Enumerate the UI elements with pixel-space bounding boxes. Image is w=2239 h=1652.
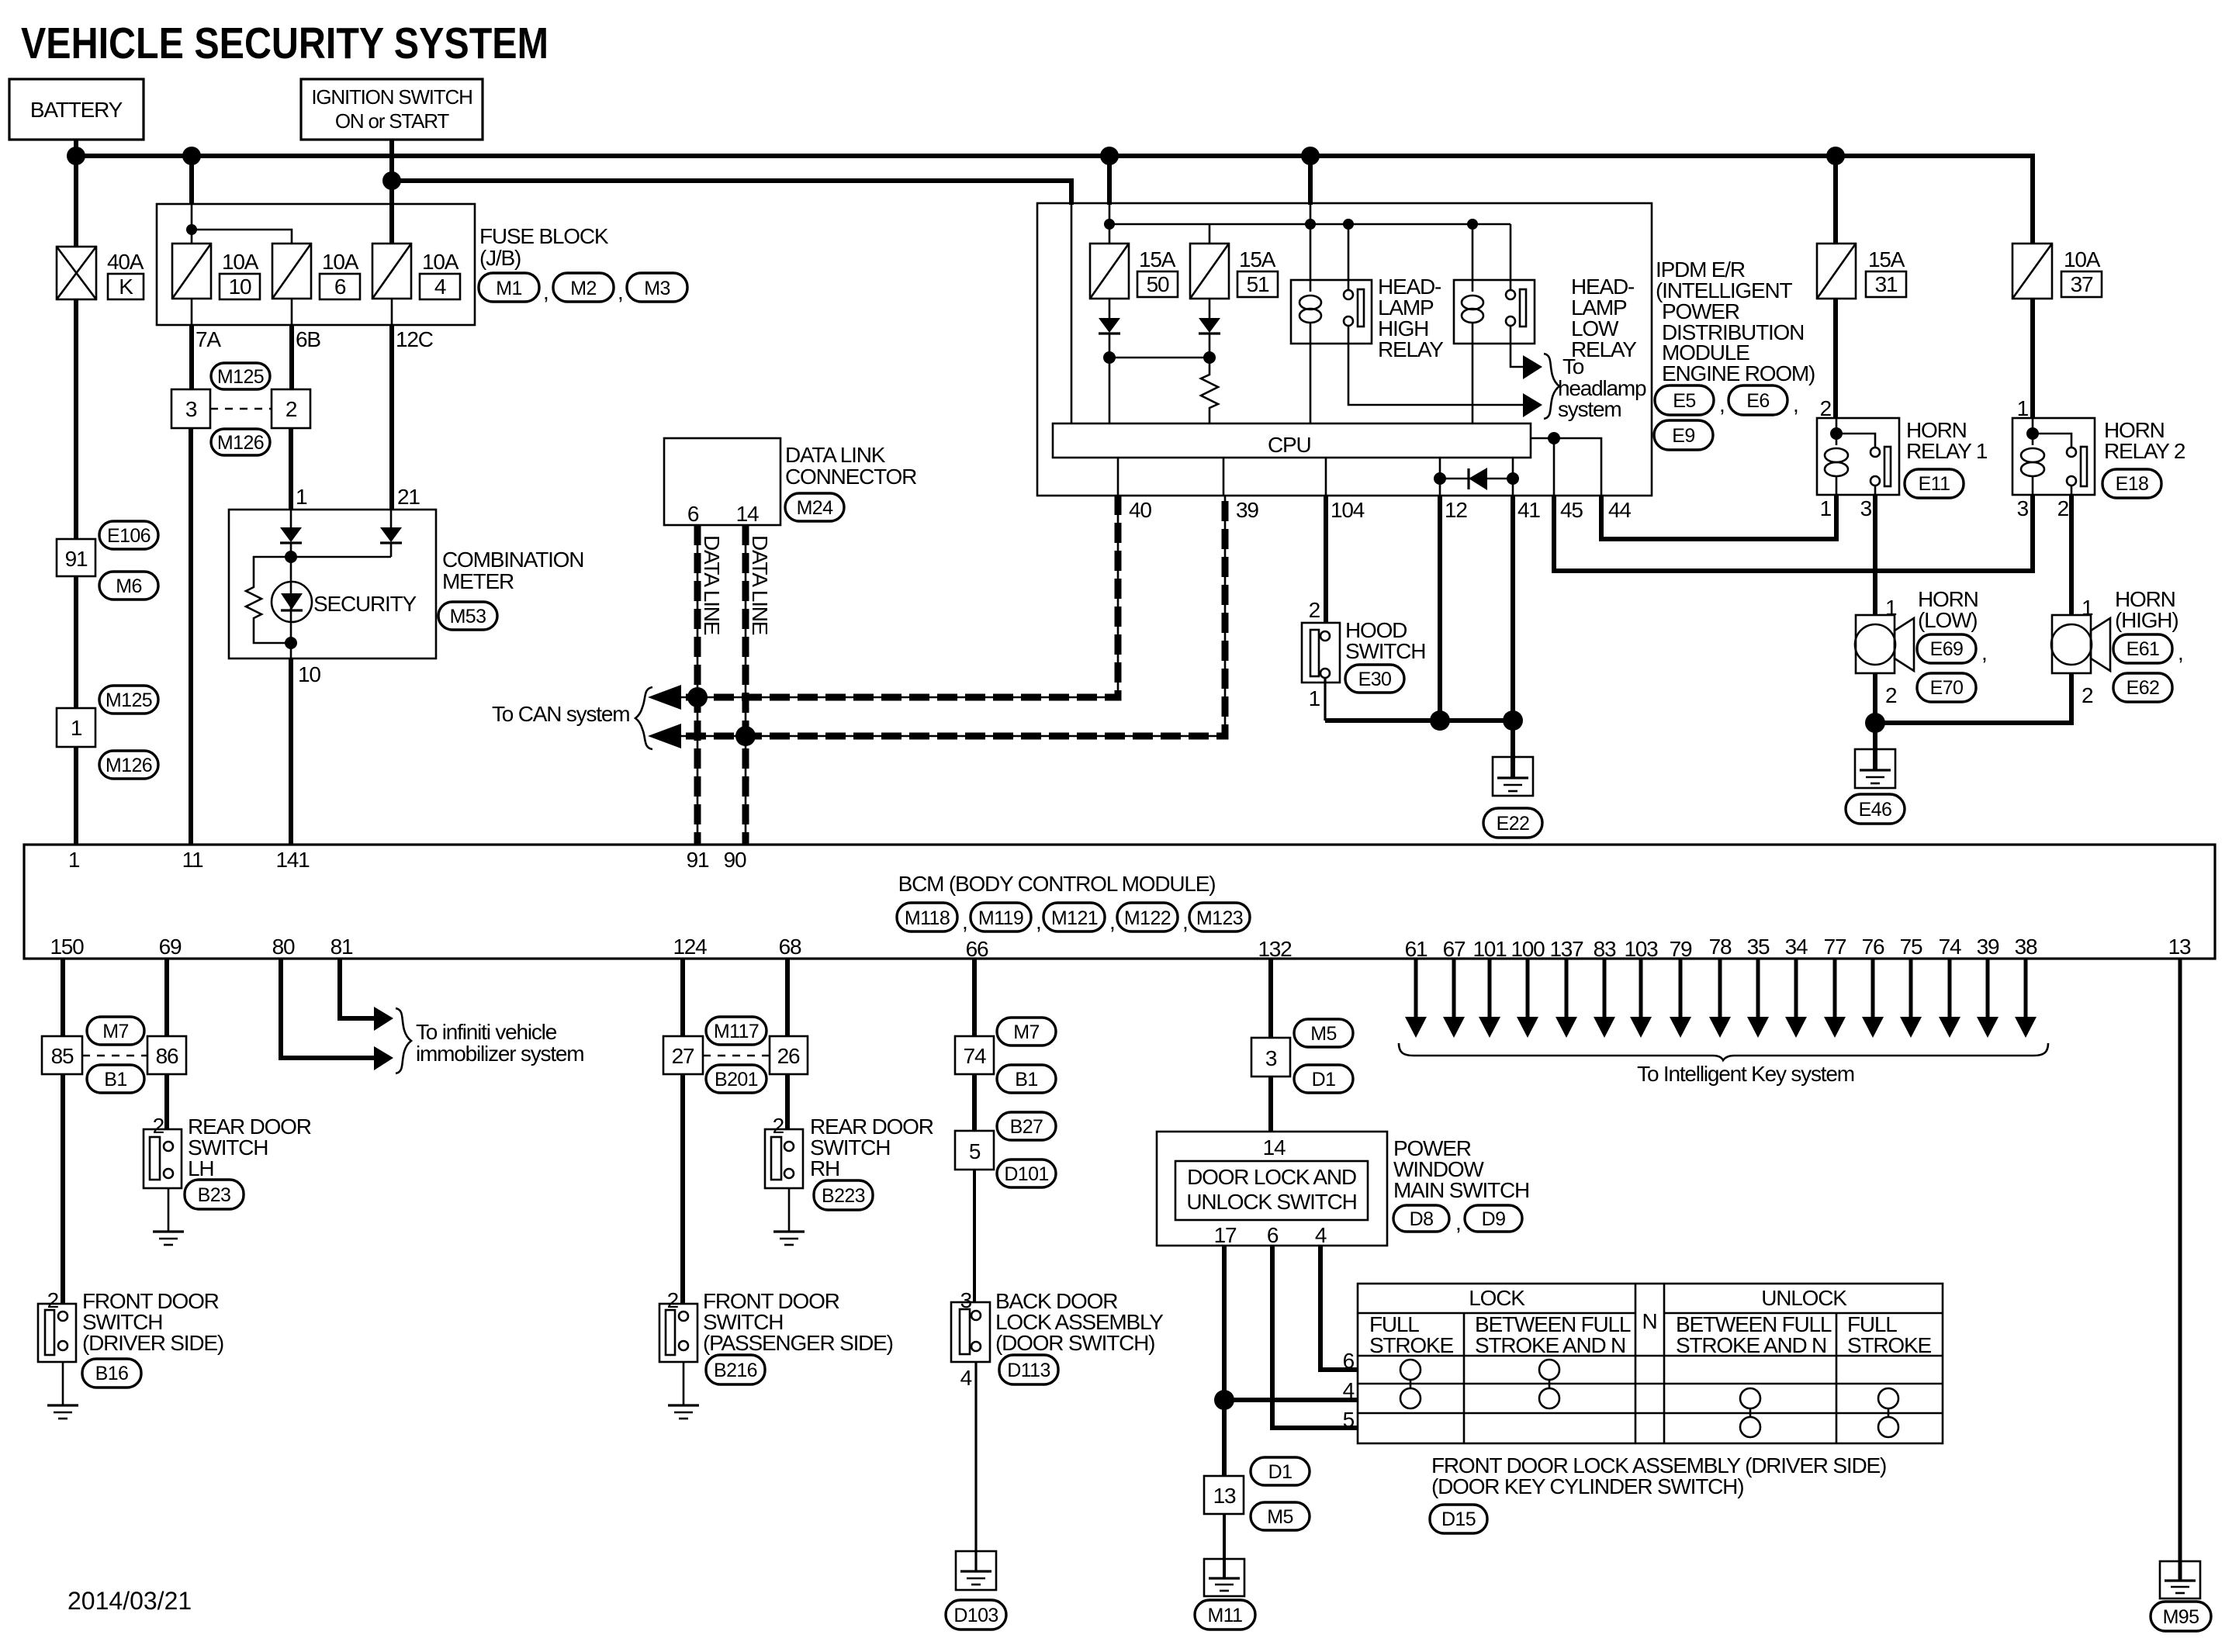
- fuse 15A 51: [1190, 244, 1229, 299]
- svg-text:system: system: [1558, 397, 1621, 421]
- relay headlamp high: [1291, 280, 1372, 344]
- svg-text:,: ,: [2178, 641, 2183, 665]
- svg-text:DATA LINK: DATA LINK: [785, 443, 886, 467]
- fuse 10A 6: [272, 244, 311, 299]
- node CAN lower: [735, 726, 756, 746]
- svg-text:M125: M125: [106, 689, 152, 711]
- ground E22: [1493, 757, 1533, 796]
- wire 6B output: [291, 299, 293, 325]
- svg-text:40: 40: [1129, 498, 1151, 522]
- ground rear door switch LH: [168, 1188, 170, 1232]
- diode below fuse 51: [1209, 299, 1211, 318]
- svg-text:COMBINATION: COMBINATION: [442, 548, 583, 572]
- svg-text:To Intelligent Key system: To Intelligent Key system: [1637, 1062, 1854, 1086]
- wire ignition stub: [389, 140, 394, 183]
- svg-text:M126: M126: [217, 432, 264, 454]
- svg-text:M2: M2: [570, 278, 597, 299]
- wire rail to headlamp low contact: [1510, 224, 1512, 290]
- svg-text:B27: B27: [1010, 1116, 1043, 1138]
- wire fuse50 feed: [1107, 156, 1112, 205]
- svg-text:UNLOCK: UNLOCK: [1761, 1286, 1847, 1310]
- wire CPU pin 104 stub: [1325, 458, 1327, 496]
- svg-text:,: ,: [1455, 1211, 1461, 1235]
- svg-text:14: 14: [1263, 1135, 1286, 1160]
- svg-text:34: 34: [1785, 935, 1808, 959]
- wire BCM pin 68: [785, 959, 790, 1036]
- wire ignition bus: [392, 181, 1071, 205]
- svg-text:D9: D9: [1482, 1208, 1506, 1230]
- wire CPU right to pins 45 44: [1531, 438, 1601, 496]
- svg-text:74: 74: [1939, 935, 1961, 959]
- svg-text:M121: M121: [1051, 907, 1098, 929]
- BCM body control module box: [24, 845, 2215, 959]
- svg-text:STROKE AND N: STROKE AND N: [1676, 1333, 1826, 1357]
- fuse 10A 4: [372, 244, 411, 299]
- svg-text:81: 81: [330, 935, 353, 959]
- svg-text:100: 100: [1511, 937, 1545, 961]
- wire 6B to meter pin 1: [289, 428, 293, 510]
- svg-text:6: 6: [334, 275, 346, 299]
- svg-text:(LOW): (LOW): [1918, 608, 1977, 632]
- wire connector 13 to M11: [1223, 1514, 1226, 1559]
- svg-text:103: 103: [1624, 937, 1658, 961]
- svg-text:37: 37: [2071, 272, 2093, 296]
- svg-text:91: 91: [687, 848, 709, 872]
- svg-text:3: 3: [185, 397, 197, 421]
- diode below fuse 50: [1109, 299, 1111, 318]
- wire BCM pin 80 to immobilizer: [281, 959, 374, 1058]
- svg-text:D15: D15: [1441, 1509, 1476, 1530]
- svg-text:150: 150: [50, 935, 84, 959]
- wire pin 68 to rear door switch RH: [785, 1074, 790, 1129]
- svg-text:MAIN SWITCH: MAIN SWITCH: [1393, 1178, 1529, 1202]
- svg-text:M5: M5: [1267, 1506, 1293, 1528]
- svg-text:M95: M95: [2163, 1606, 2199, 1628]
- svg-text:M118: M118: [905, 907, 950, 929]
- svg-text:M126: M126: [106, 755, 152, 776]
- svg-text:26: 26: [777, 1044, 800, 1068]
- node pin 17 to key cylinder row 4: [1214, 1390, 1234, 1410]
- wire 7A output: [191, 299, 193, 325]
- svg-text:(DOOR SWITCH): (DOOR SWITCH): [995, 1331, 1154, 1355]
- fuse block J/B box: [157, 204, 475, 325]
- wire battery to fuse 40A: [74, 156, 78, 247]
- svg-text:2: 2: [667, 1288, 679, 1312]
- IPDM E/R box: [1037, 203, 1652, 496]
- arrows to intelligent key system: [1405, 959, 2037, 1038]
- svg-text:immobilizer system: immobilizer system: [416, 1042, 583, 1066]
- wire ignition to fuse 4: [389, 181, 394, 244]
- wire 7A to BCM pin 11: [189, 428, 193, 845]
- svg-text:METER: METER: [442, 569, 514, 593]
- svg-text:12C: 12C: [396, 327, 434, 351]
- svg-text:(DRIVER SIDE): (DRIVER SIDE): [82, 1331, 223, 1355]
- wire headlamp high coil to CPU: [1310, 344, 1312, 423]
- wire BCM pin 66: [972, 959, 977, 1036]
- wire pin 124 to front door switch passenger: [680, 1074, 685, 1304]
- power window main switch D8/D9: [1157, 1132, 1387, 1246]
- svg-text:,: ,: [1109, 910, 1115, 934]
- svg-text:10A: 10A: [2064, 247, 2101, 271]
- connector M5/D1 pin 3: [1251, 1038, 1290, 1077]
- svg-text:31: 31: [1875, 272, 1898, 296]
- svg-text:D1: D1: [1312, 1069, 1336, 1090]
- svg-text:6B: 6B: [296, 327, 320, 351]
- svg-text:,: ,: [1719, 392, 1725, 416]
- node battery bus at battery: [67, 147, 85, 165]
- svg-text:SECURITY: SECURITY: [313, 592, 417, 616]
- svg-text:M6: M6: [116, 575, 142, 597]
- wire pin 45 to horn relay 2 pin 3: [1554, 495, 2033, 571]
- node rail headlamp low coil: [1467, 219, 1478, 230]
- wire battery bus: [76, 156, 2033, 244]
- svg-text:,: ,: [962, 910, 967, 934]
- brace intelligent key: [1399, 1043, 2048, 1060]
- diode between pins 12 and 41: [1440, 478, 1513, 480]
- svg-text:M5: M5: [1310, 1023, 1337, 1045]
- svg-text:86: 86: [156, 1044, 178, 1068]
- svg-text:STROKE AND N: STROKE AND N: [1475, 1333, 1625, 1357]
- ground front door switch driver: [62, 1362, 64, 1405]
- svg-text:D103: D103: [953, 1605, 998, 1626]
- svg-text:13: 13: [1213, 1484, 1236, 1508]
- svg-text:M119: M119: [978, 907, 1023, 929]
- node battery bus headlamp relay feed: [1301, 147, 1320, 165]
- fuse 40A K: [57, 247, 96, 299]
- svg-text:61: 61: [1405, 937, 1427, 961]
- node diode 51: [1203, 351, 1216, 364]
- table front door lock assembly key cylinder switch: [1358, 1284, 1943, 1443]
- svg-text:10A: 10A: [322, 250, 359, 274]
- svg-text:35: 35: [1747, 935, 1770, 959]
- svg-text:2014/03/21: 2014/03/21: [67, 1587, 192, 1615]
- svg-text:To: To: [1562, 354, 1584, 378]
- svg-text:E22: E22: [1497, 813, 1530, 835]
- svg-text:VEHICLE SECURITY SYSTEM: VEHICLE SECURITY SYSTEM: [21, 19, 549, 68]
- CPU: [1053, 423, 1531, 458]
- connector M7/B1 pin 74: [955, 1036, 994, 1074]
- svg-text:D113: D113: [1007, 1360, 1050, 1381]
- svg-text:RELAY: RELAY: [1378, 337, 1444, 361]
- node rail headlamp high coil: [1305, 219, 1316, 230]
- connector M125/M126 pin 1: [57, 708, 95, 747]
- svg-text:77: 77: [1824, 935, 1846, 959]
- svg-text:137: 137: [1549, 937, 1583, 961]
- ignition switch: [301, 79, 483, 140]
- svg-text:N: N: [1642, 1309, 1656, 1333]
- svg-text:78: 78: [1709, 935, 1732, 959]
- wire ignition feed into IPDM to CPU: [1071, 203, 1073, 423]
- wire connector 3 to power window main switch: [1268, 1077, 1273, 1132]
- svg-text:2: 2: [2057, 496, 2069, 520]
- svg-text:E30: E30: [1358, 669, 1392, 690]
- svg-text:74: 74: [964, 1044, 986, 1068]
- wire horn high pin 2 join: [1875, 673, 2071, 723]
- svg-text:B1: B1: [104, 1069, 126, 1090]
- wire connector 91 to connector 1: [74, 576, 78, 708]
- svg-text:To CAN system: To CAN system: [492, 702, 629, 726]
- node rail fuse50: [1104, 219, 1115, 230]
- svg-text:3: 3: [2017, 496, 2029, 520]
- svg-text:39: 39: [1977, 935, 1999, 959]
- wire battery stub: [74, 140, 78, 158]
- svg-text:,: ,: [1182, 910, 1188, 934]
- svg-text:69: 69: [159, 935, 182, 959]
- svg-text:(DOOR KEY CYLINDER SWITCH): (DOOR KEY CYLINDER SWITCH): [1431, 1474, 1743, 1498]
- svg-text:79: 79: [1670, 937, 1692, 961]
- svg-text:2: 2: [153, 1114, 164, 1138]
- wire rail to fuse 51: [1209, 224, 1211, 244]
- node ignition bus: [382, 171, 401, 190]
- svg-text:15A: 15A: [1139, 247, 1176, 271]
- connector B27/D101 pin 5: [997, 1112, 1056, 1140]
- wire connector 5 to back door lock: [973, 1170, 976, 1302]
- relay horn 1 E11: [1817, 418, 1899, 495]
- svg-text:UNLOCK SWITCH: UNLOCK SWITCH: [1186, 1190, 1356, 1214]
- svg-text:1: 1: [296, 485, 307, 509]
- wire node to table row 4: [1224, 1398, 1358, 1402]
- svg-text:15A: 15A: [1239, 247, 1276, 271]
- svg-text:M117: M117: [714, 1021, 759, 1042]
- svg-text:1: 1: [71, 716, 82, 740]
- svg-text:RELAY 1: RELAY 1: [1906, 439, 1988, 463]
- diode meter pin21: [390, 510, 393, 527]
- node CAN upper: [687, 687, 708, 707]
- wire pin 44 to horn relay 1 pin 1: [1601, 495, 1836, 539]
- lamp SECURITY: [290, 557, 292, 643]
- svg-text:CONNECTOR: CONNECTOR: [785, 465, 916, 489]
- wire headlamp low contact to arrow: [1511, 344, 1523, 367]
- svg-text:E69: E69: [1930, 638, 1964, 660]
- svg-text:M7: M7: [102, 1021, 129, 1042]
- relay headlamp low: [1454, 280, 1535, 344]
- node diode 50: [1103, 351, 1116, 364]
- arrow CAN lower: [648, 724, 681, 748]
- svg-text:To infiniti vehicle: To infiniti vehicle: [416, 1020, 557, 1044]
- wire headlamp high contact to arrow: [1348, 344, 1523, 405]
- svg-text:E70: E70: [1930, 677, 1964, 699]
- svg-text:104: 104: [1331, 498, 1365, 522]
- svg-text:E18: E18: [2116, 473, 2149, 495]
- svg-text:50: 50: [1147, 272, 1169, 296]
- svg-text:,: ,: [1981, 641, 1987, 665]
- svg-text:RELAY 2: RELAY 2: [2104, 439, 2185, 463]
- svg-text:LH: LH: [188, 1156, 213, 1180]
- svg-text:B201: B201: [715, 1069, 758, 1090]
- ground M95: [2160, 1561, 2200, 1598]
- wire horn low pin 2: [1873, 673, 1877, 749]
- node horn ground: [1865, 713, 1885, 733]
- node battery bus fuse block feed: [182, 147, 201, 165]
- svg-text:6: 6: [687, 502, 699, 526]
- svg-text:5: 5: [969, 1139, 981, 1163]
- svg-text:44: 44: [1608, 498, 1631, 522]
- wire fuse block feed: [189, 156, 194, 204]
- wire data line pin 14 to BCM 90: [745, 525, 747, 845]
- wire diode join: [291, 556, 391, 558]
- svg-text:D1: D1: [1268, 1461, 1293, 1483]
- fuse 15A 31: [1817, 244, 1856, 299]
- wire hood switch pin 1: [1324, 678, 1326, 721]
- ground D103: [956, 1551, 996, 1590]
- svg-text:CPU: CPU: [1268, 433, 1311, 457]
- svg-text:2: 2: [1885, 683, 1897, 707]
- wire pin 74 to connector 5: [972, 1074, 977, 1131]
- svg-text:40A: 40A: [107, 250, 144, 274]
- diode meter pin1: [290, 510, 292, 527]
- svg-text:4: 4: [1343, 1378, 1355, 1402]
- svg-text:3: 3: [1860, 496, 1872, 520]
- svg-text:7A: 7A: [196, 327, 221, 351]
- svg-text:4: 4: [960, 1366, 972, 1390]
- svg-text:(J/B): (J/B): [479, 246, 521, 270]
- resistor meter: [246, 557, 291, 643]
- svg-text:83: 83: [1594, 937, 1616, 961]
- wire CPU pin 39 stub: [1223, 458, 1225, 496]
- svg-text:M11: M11: [1208, 1605, 1243, 1626]
- svg-text:LOCK: LOCK: [1469, 1286, 1525, 1310]
- node pin12 ground: [1430, 710, 1450, 731]
- wire pin 41 down: [1511, 496, 1515, 757]
- svg-text:10: 10: [229, 275, 251, 299]
- wire headlamp low coil to CPU: [1472, 344, 1474, 423]
- svg-text:E61: E61: [2127, 638, 2160, 660]
- wire CAN line lower: [658, 496, 1225, 736]
- wire BCM pin 132: [1268, 959, 1273, 1038]
- data link connector M24: [664, 438, 780, 525]
- svg-text:68: 68: [779, 935, 801, 959]
- wire rail to fuse 6: [192, 230, 292, 244]
- svg-text:3: 3: [1265, 1046, 1277, 1070]
- wire meter pin 10 to BCM 141: [290, 643, 292, 658]
- wire fuse 37 to horn relay 2: [2030, 299, 2035, 418]
- svg-text:6: 6: [1343, 1349, 1355, 1373]
- svg-text:E62: E62: [2127, 677, 2160, 699]
- svg-text:M1: M1: [496, 278, 522, 299]
- svg-text:10A: 10A: [222, 250, 259, 274]
- svg-text:76: 76: [1862, 935, 1884, 959]
- svg-text:ENGINE ROOM): ENGINE ROOM): [1662, 361, 1815, 385]
- svg-text:85: 85: [51, 1044, 74, 1068]
- svg-text:E5: E5: [1673, 390, 1695, 412]
- title: [21, 19, 549, 68]
- wire pin 69 to rear door switch LH: [164, 1074, 169, 1129]
- ground rear door switch RH: [788, 1188, 791, 1232]
- svg-text:27: 27: [672, 1044, 694, 1068]
- svg-text:12: 12: [1445, 498, 1467, 522]
- wire back door lock pin 4 to D103: [974, 1362, 977, 1551]
- wire diode join: [1109, 357, 1209, 359]
- svg-text:2: 2: [1820, 396, 1832, 420]
- svg-text:4: 4: [1315, 1223, 1327, 1247]
- svg-text:DATA LINE: DATA LINE: [700, 535, 724, 635]
- wire data line pin 6 to BCM 91: [697, 525, 699, 845]
- relay horn 2 E18: [2012, 418, 2095, 495]
- svg-text:75: 75: [1900, 935, 1922, 959]
- wire BCM pin 81 to immobilizer: [340, 959, 374, 1018]
- connector D1/M5 pin 13: [1204, 1476, 1244, 1514]
- wire ground bus to E22: [1325, 718, 1513, 723]
- svg-text:38: 38: [2015, 935, 2037, 959]
- svg-text:101: 101: [1472, 937, 1507, 961]
- node meter top: [285, 551, 297, 563]
- svg-text:66: 66: [966, 937, 988, 961]
- svg-text:2: 2: [47, 1288, 59, 1312]
- svg-text:M123: M123: [1196, 907, 1243, 929]
- battery: [9, 79, 144, 140]
- table contact circles: [1400, 1360, 1421, 1380]
- wire BCM pin 150: [61, 959, 65, 1036]
- wire to BCM pin 1: [74, 747, 78, 845]
- svg-text:E11: E11: [1919, 473, 1950, 495]
- svg-text:2: 2: [285, 397, 297, 421]
- svg-text:1: 1: [1820, 496, 1832, 520]
- wire headlamp relay feed: [1308, 156, 1313, 205]
- svg-text:IGNITION SWITCH: IGNITION SWITCH: [311, 85, 472, 109]
- svg-text:D8: D8: [1410, 1208, 1434, 1230]
- connector E106/M6 pin 91: [57, 539, 95, 576]
- svg-text:1: 1: [2017, 396, 2029, 420]
- svg-text:E106: E106: [107, 525, 151, 547]
- svg-text:B16: B16: [95, 1363, 129, 1384]
- svg-text:M7: M7: [1013, 1021, 1040, 1043]
- wire IPDM internal rail: [1109, 223, 1511, 226]
- svg-text:BATTERY: BATTERY: [30, 98, 123, 122]
- svg-text:,: ,: [1036, 910, 1041, 934]
- connector M117/B201 pin 27: [663, 1036, 703, 1074]
- svg-text:K: K: [119, 275, 133, 299]
- brace immobilizer: [396, 1008, 411, 1073]
- wire pin 150 to front door switch: [61, 1074, 65, 1304]
- node battery bus fuse 31 feed: [1826, 147, 1845, 165]
- svg-text:B1: B1: [1015, 1069, 1037, 1090]
- svg-text:51: 51: [1247, 272, 1269, 296]
- svg-text:FUSE BLOCK: FUSE BLOCK: [479, 224, 609, 248]
- wire BCM pin 124: [680, 959, 685, 1036]
- wire switch pin 17 down: [1222, 1246, 1227, 1476]
- svg-text:B216: B216: [714, 1360, 757, 1381]
- svg-text:2: 2: [2082, 683, 2093, 707]
- svg-text:11: 11: [182, 848, 203, 872]
- ground front door switch passenger: [683, 1362, 685, 1405]
- wire horn relay 1 pin 3 to horn low: [1873, 495, 1877, 615]
- svg-text:10: 10: [298, 662, 320, 686]
- ground M11: [1204, 1559, 1244, 1596]
- resistor IPDM: [1201, 358, 1218, 423]
- svg-text:2: 2: [773, 1114, 784, 1138]
- svg-text:,: ,: [543, 280, 549, 304]
- svg-text:DATA LINE: DATA LINE: [748, 535, 772, 635]
- svg-text:E6: E6: [1746, 390, 1769, 412]
- fuse 15A 50: [1090, 244, 1129, 299]
- svg-text:91: 91: [65, 547, 88, 571]
- svg-text:132: 132: [1258, 937, 1292, 961]
- svg-text:4: 4: [434, 275, 446, 299]
- wire pin 13 to M95: [2178, 959, 2182, 1561]
- svg-text:M24: M24: [797, 497, 834, 519]
- wire 12C output: [391, 299, 393, 325]
- fuse 10A 10: [172, 244, 211, 299]
- svg-text:90: 90: [724, 848, 746, 872]
- node rail headlamp high contact: [1343, 219, 1354, 230]
- wire BCM pin 69: [164, 959, 169, 1036]
- svg-text:6: 6: [1267, 1223, 1279, 1247]
- connector M117/B201 pin 26: [770, 1036, 808, 1074]
- node pin41 ground: [1503, 710, 1523, 731]
- svg-text:ON or START: ON or START: [335, 109, 450, 133]
- svg-text:E9: E9: [1672, 425, 1694, 447]
- wire pin 104 to hood switch: [1324, 496, 1328, 623]
